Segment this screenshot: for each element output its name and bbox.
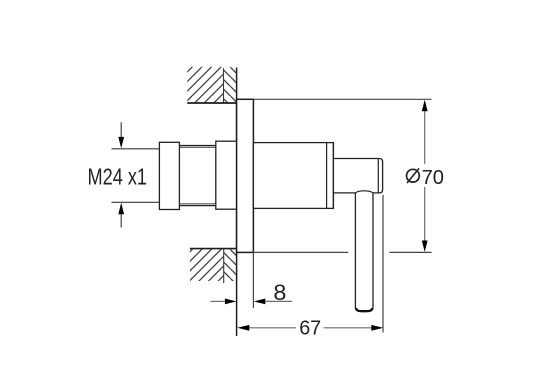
dimension 8 (escutcheon thickness) bbox=[210, 280, 292, 305]
wall hatch bottom right region bbox=[224, 248, 237, 281]
valve wall flange bbox=[216, 141, 237, 209]
dim67 right extension line bbox=[382, 195, 384, 333]
dimension Ø70 (escutcheon diameter) bbox=[253, 99, 444, 252]
dia70 bottom extension line right segment bbox=[390, 251, 432, 253]
dia70 dim line lower segment bbox=[424, 187, 426, 241]
dim67 left arrowhead bbox=[237, 325, 249, 331]
dia70 bottom extension line left segment bbox=[253, 251, 348, 253]
escutcheon plate (wall plate, side view) bbox=[237, 99, 254, 252]
svg-text:70: 70 bbox=[422, 166, 444, 189]
M24 bottom arrowhead bbox=[118, 203, 124, 215]
dim67 line right segment bbox=[324, 327, 372, 329]
wall hatch top chevron apex line bbox=[223, 68, 225, 103]
thread section M24x1 inner (root) lines bbox=[179, 147, 215, 203]
dia70 top arrowhead bbox=[422, 100, 428, 112]
wall face line (also 67 left extension) bbox=[236, 68, 238, 337]
wall hatch bottom chevron apex line bbox=[223, 248, 225, 283]
handle hub outline bbox=[333, 159, 382, 193]
dim8 left arrow stem bbox=[210, 300, 225, 302]
valve thread end cap bbox=[159, 142, 179, 209]
trim sleeve end-cap line bbox=[326, 143, 328, 209]
M24 top extension line bbox=[112, 148, 160, 150]
M24 top arrowhead bbox=[118, 137, 124, 149]
svg-text:8: 8 bbox=[273, 280, 286, 305]
lever-hub intersection curve bbox=[355, 191, 373, 193]
dia70 top extension line bbox=[253, 98, 431, 100]
dim8 right arrowhead bbox=[254, 299, 265, 305]
lever shaft fill bbox=[355, 191, 373, 312]
M24 top arrow stem bbox=[120, 122, 122, 138]
dim8 left arrowhead bbox=[225, 299, 237, 305]
wall hatch top right region bbox=[224, 67, 237, 103]
dia70 label diameter symbol bbox=[407, 169, 420, 182]
thread section M24x1 outer lines bbox=[179, 146, 215, 206]
dimension 67 (depth) bbox=[237, 195, 383, 340]
dim67 line left segment bbox=[249, 327, 296, 329]
wall hatch bottom left region bbox=[190, 248, 224, 281]
svg-text:M24 x1: M24 x1 bbox=[88, 164, 148, 190]
dia70 bottom arrowhead bbox=[422, 241, 428, 253]
handle hub fill bbox=[333, 159, 382, 193]
dimension M24x1 bbox=[88, 122, 160, 227]
lever shaft outline bbox=[355, 193, 373, 312]
svg-text:67: 67 bbox=[299, 317, 321, 340]
wall hole top edge bbox=[187, 102, 236, 104]
trim sleeve right edge line bbox=[332, 143, 334, 209]
dim67 right arrowhead bbox=[371, 325, 383, 331]
wall hatch top left region bbox=[187, 67, 223, 103]
escutcheon right edge extension line for dim 8 bbox=[252, 252, 254, 308]
dim8 right arrow stem bbox=[265, 300, 292, 302]
M24 bottom arrow stem bbox=[120, 214, 122, 228]
lever bottom cap thick arc bbox=[356, 308, 373, 311]
wall hole bottom edge bbox=[190, 248, 237, 250]
handle hub end-cap inner line bbox=[377, 159, 379, 193]
dia70 dim line upper segment bbox=[424, 110, 426, 164]
trim sleeve cylinder bbox=[253, 143, 333, 209]
M24 bottom extension line bbox=[112, 201, 160, 203]
